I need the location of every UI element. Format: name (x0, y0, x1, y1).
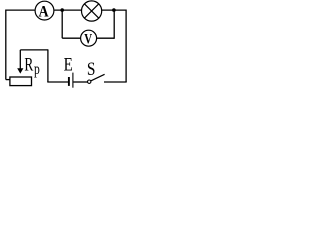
lamp L1 circle (82, 1, 102, 21)
ammeter A1 circle (35, 1, 54, 20)
wire: left border vertical (5, 10, 7, 80)
wire: voltmeter branch right horizontal (97, 37, 115, 39)
wire: lamp to top-right corner (through node J2) (102, 9, 126, 11)
wire: top-left horizontal from left border to ammeter (6, 9, 35, 11)
svg-text:A: A (38, 4, 48, 21)
svg-text:R: R (24, 53, 33, 75)
battery E cell: long thin plate (72, 73, 74, 88)
node J1 junction dot (60, 8, 64, 12)
rheostat RP body (resistor box) (10, 77, 32, 86)
svg-text:V: V (84, 31, 93, 47)
battery E cell: short thick plate (68, 77, 70, 86)
wire: voltmeter branch left vertical from node J1 (61, 10, 63, 38)
wire: vertical down to bottom rail (47, 49, 49, 82)
rheostat RP wiper vertical wire (19, 50, 21, 69)
svg-text:E: E (64, 54, 73, 75)
lamp L1 cross (85, 4, 99, 18)
wire: voltmeter branch right vertical to node J2 (113, 10, 115, 39)
wire: ammeter to lamp (through node J1) (54, 9, 81, 11)
svg-text:p: p (34, 61, 40, 78)
wire: voltmeter branch left horizontal (62, 37, 80, 39)
wire: stub from left border to rheostat body (6, 79, 10, 81)
voltmeter V1 circle (81, 30, 97, 46)
rheostat RP wiper arrowhead (17, 68, 23, 73)
switch S pivot circle (88, 80, 91, 83)
wire: switch to bottom-right corner (104, 81, 127, 83)
switch S blade (91, 74, 105, 81)
wire: right border vertical (125, 10, 127, 83)
wire: battery to switch (73, 81, 87, 83)
svg-text:S: S (87, 59, 96, 80)
wire: wiper top horizontal (20, 49, 48, 51)
node J2 junction dot (112, 8, 116, 12)
wire: bottom rail to battery (47, 81, 68, 83)
